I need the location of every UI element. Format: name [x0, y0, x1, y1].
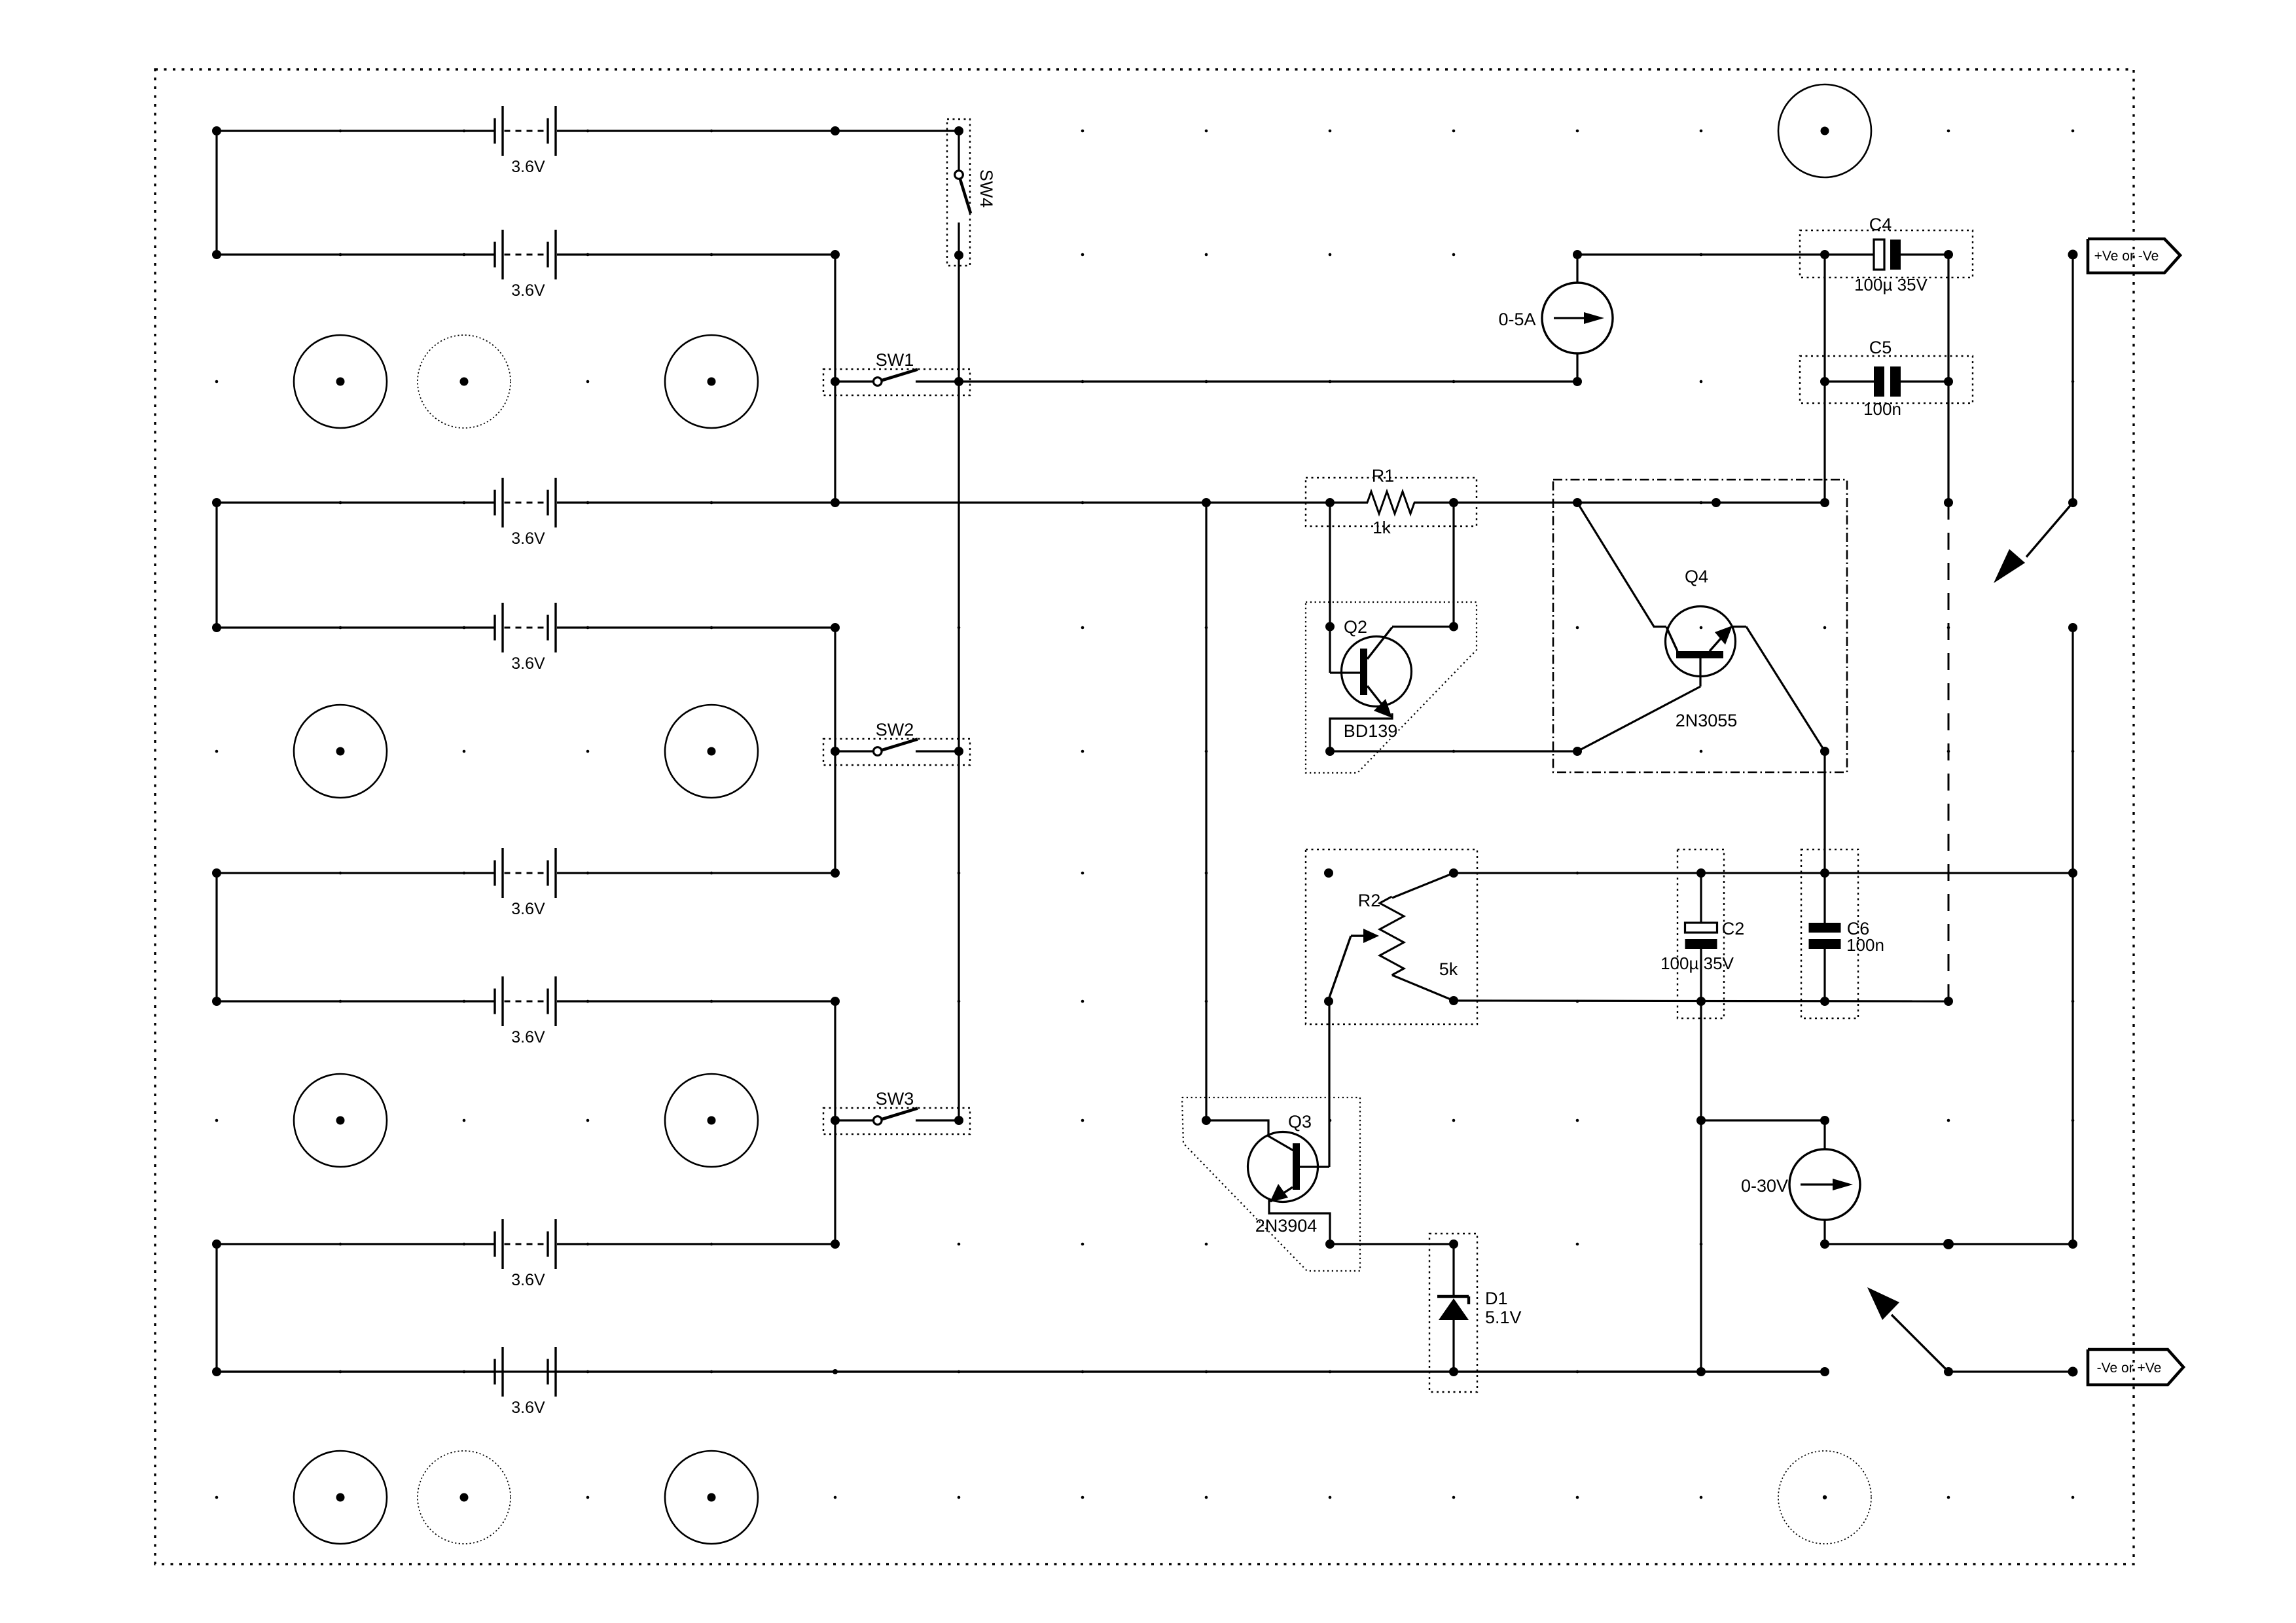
wire col8 rail row3 to Q3 base node [1205, 503, 1207, 1120]
wire C4/C5 left bus [1820, 255, 1829, 507]
wire row5 output rail [1454, 868, 2077, 878]
mounting hole [1778, 84, 1871, 177]
wire R1 left to Q2 base [1325, 503, 1335, 673]
switch SW4 [947, 119, 996, 266]
svg-text:BD139: BD139 [1344, 721, 1398, 741]
svg-text:0-5A: 0-5A [1498, 310, 1535, 329]
transistor Q3 2N3904 [1182, 1097, 1360, 1271]
svg-text:5k: 5k [1439, 959, 1458, 979]
svg-text:SW2: SW2 [876, 720, 914, 740]
battery B6 3.6V with row wire [212, 976, 835, 1046]
node row2 end junction [831, 250, 840, 259]
svg-text:100n: 100n [1846, 935, 1884, 955]
wire battery bus col5 rows4-5 [831, 623, 840, 878]
wire +Ve to selector [2068, 255, 2077, 507]
mounting hole [665, 1451, 758, 1544]
svg-text:+Ve or -Ve: +Ve or -Ve [2094, 249, 2159, 264]
wire Q4 emitter to C6 bus [1746, 627, 1829, 874]
switch SW2 [823, 720, 970, 765]
svg-text:100n: 100n [1863, 399, 1901, 419]
transistor Q2 BD139 [1306, 602, 1477, 773]
wire switch bus col6 SW4 to SW3 [958, 255, 960, 1120]
wire left bus pair 4 [215, 1244, 217, 1372]
wire row3 rail [835, 491, 1825, 514]
tag +Ve or -Ve [2068, 239, 2181, 273]
wire C4/C5 right bus [1944, 255, 1953, 507]
svg-text:SW4: SW4 [977, 169, 996, 208]
battery B4 3.6V with row wire [212, 603, 835, 673]
svg-text:R1: R1 [1372, 466, 1395, 486]
svg-text:SW3: SW3 [876, 1089, 914, 1109]
svg-text:-Ve or +Ve: -Ve or +Ve [2097, 1361, 2162, 1376]
wire Q4 base diagonal [1577, 687, 1700, 751]
wire selector to output bus right [2068, 623, 2077, 1244]
svg-text:R2: R2 [1358, 891, 1381, 910]
voltmeter 0-30V [1741, 1149, 1860, 1249]
svg-text:100µ 35V: 100µ 35V [1660, 954, 1734, 973]
wire left bus pair 2 [215, 503, 217, 628]
tag -Ve or +Ve [2088, 1349, 2183, 1385]
potentiometer R2 5k [1306, 849, 1477, 1024]
svg-text:C2: C2 [1722, 919, 1745, 938]
wire dashed link [1948, 503, 1950, 1001]
selector arrow lower [1867, 1287, 1953, 1376]
wire C2 bottom to row8 [1696, 1116, 1706, 1376]
mounting hole [665, 335, 758, 428]
svg-text:5.1V: 5.1V [1485, 1308, 1522, 1327]
svg-text:3.6V: 3.6V [511, 1271, 545, 1289]
battery B8 3.6V with row wire [212, 1347, 1825, 1417]
ammeter 0-5A [1498, 250, 1613, 386]
node row1-col5 junction [831, 126, 840, 135]
svg-text:2N3055: 2N3055 [1676, 711, 1738, 730]
wire battery bus col5 rows6-7 [831, 997, 840, 1249]
wire selector to -Ve tag [1948, 1367, 2078, 1377]
wire row8 ground rail [217, 1367, 1829, 1376]
wire voltmeter bottom rail [1825, 1239, 2077, 1249]
resistor R1 1k [1306, 466, 1477, 537]
capacitor C6 100n [1801, 849, 1884, 1018]
wire Q3 emitter to D1 [1330, 1240, 1458, 1249]
svg-text:3.6V: 3.6V [511, 1399, 545, 1417]
svg-text:3.6V: 3.6V [511, 1028, 545, 1046]
svg-text:C4: C4 [1869, 215, 1892, 234]
wire Q4 collector to row3 [1577, 503, 1666, 627]
battery B7 3.6V with row wire [212, 1219, 835, 1289]
mounting hole [665, 1074, 758, 1167]
svg-text:D1: D1 [1485, 1289, 1508, 1308]
capacitor C2 100u 35V [1660, 849, 1744, 1120]
svg-text:Q2: Q2 [1344, 617, 1367, 637]
svg-text:1k: 1k [1372, 518, 1391, 537]
battery B5 3.6V with row wire [212, 848, 835, 918]
svg-text:Q4: Q4 [1685, 567, 1708, 586]
svg-text:SW1: SW1 [876, 350, 914, 370]
svg-text:0-30V: 0-30V [1741, 1176, 1788, 1196]
mounting hole (dotted) [1778, 1451, 1871, 1544]
selector arrow upper [1994, 503, 2073, 583]
svg-text:3.6V: 3.6V [511, 654, 545, 673]
svg-text:3.6V: 3.6V [511, 900, 545, 918]
svg-text:C5: C5 [1869, 338, 1892, 357]
battery B1 3.6V with row wire [212, 106, 959, 176]
wire row6 rail [1454, 997, 1953, 1006]
svg-text:3.6V: 3.6V [511, 281, 545, 300]
battery B3 3.6V with row wire [212, 478, 835, 548]
wire battery bus col5 rows2-3 [831, 255, 840, 507]
wire left bus pair 3 [215, 873, 217, 1001]
wire Q2 emitter to Q4 base node [1325, 713, 1582, 756]
wire R2 wiper to Q3 base [1328, 1001, 1330, 1167]
mounting hole [665, 705, 758, 798]
mounting hole [294, 1451, 387, 1544]
svg-text:2N3904: 2N3904 [1255, 1216, 1318, 1236]
capacitor C4 100u 35V [1800, 215, 1973, 294]
zener diode D1 5.1V [1429, 1234, 1522, 1392]
transistor Q4 2N3055 [1553, 480, 1847, 772]
wire left bus pair 1 [215, 131, 217, 255]
mounting hole [294, 335, 387, 428]
svg-text:Q3: Q3 [1288, 1112, 1312, 1132]
wire R1 right to Q2 collector [1392, 503, 1458, 632]
wire SW1 output to ammeter [959, 380, 1577, 382]
switch SW1 [823, 350, 970, 395]
mounting hole [294, 705, 387, 798]
wire ammeter to C4 [1577, 253, 1825, 255]
svg-text:100µ 35V: 100µ 35V [1854, 275, 1928, 294]
mounting hole (dotted) [418, 335, 511, 428]
switch SW3 [823, 1089, 970, 1134]
battery B2 3.6V with row wire [212, 230, 835, 300]
wire to voltmeter top [1701, 1116, 1829, 1149]
svg-text:3.6V: 3.6V [511, 529, 545, 548]
capacitor C5 100n [1800, 338, 1973, 419]
mounting hole (dotted) [418, 1451, 511, 1544]
svg-text:3.6V: 3.6V [511, 158, 545, 176]
mounting hole [294, 1074, 387, 1167]
